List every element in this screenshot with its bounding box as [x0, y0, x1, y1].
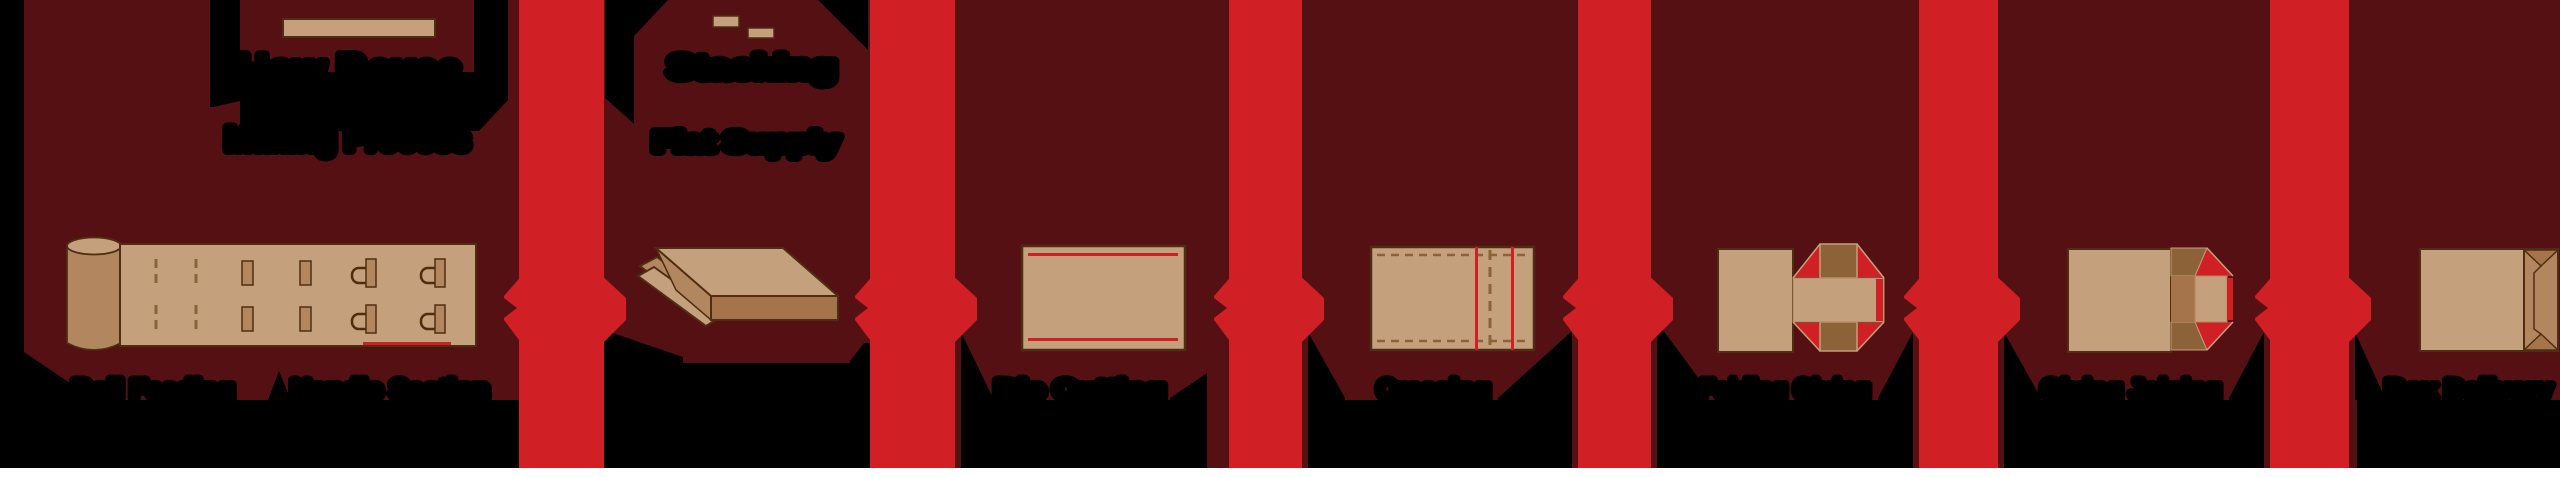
- score dashed line r0 c0: [155, 259, 158, 287]
- score dashed line r1 c0: [155, 305, 158, 333]
- black notch between step1 captions: [268, 371, 291, 400]
- stack sheet edge 1: [640, 257, 727, 320]
- gluing box red side strip: [2227, 278, 2233, 320]
- handle cut r0 c0: [352, 259, 376, 287]
- gluing box red top: [2195, 248, 2233, 276]
- paper roll top ellipse: [67, 238, 121, 255]
- folding box bottom flap: [1820, 322, 1857, 351]
- red divider bar 5: [1919, 0, 1998, 468]
- folding box inner panel: [1793, 278, 1884, 322]
- black wedge left of divider bar 3: [1170, 373, 1207, 400]
- finished box fold top: [2524, 250, 2558, 266]
- stack slab front face: [711, 296, 838, 320]
- gluing box body: [2068, 249, 2171, 352]
- svg-text:Making Process: Making Process: [225, 121, 470, 157]
- black wedge right of divider bar 3: [1308, 332, 1345, 400]
- maroon flank right of bar 3: [1302, 400, 1308, 468]
- svg-text:Handle Section: Handle Section: [291, 374, 489, 404]
- red trim line on sheet: [363, 342, 451, 345]
- white bottom strip: [0, 468, 2560, 477]
- score dashed line r1 c1: [195, 305, 198, 333]
- black wedge right of stack zone: [850, 343, 870, 400]
- svg-text:Gluing Joining: Gluing Joining: [2041, 374, 2221, 404]
- maroon flank left of bar 6: [2264, 400, 2270, 468]
- red arrow bulge on bar 5: [1904, 272, 2020, 348]
- red arrow bulge on bar 1: [504, 272, 626, 348]
- subtitle mini sheet 2: [748, 28, 774, 38]
- red arrow bulge on bar 3: [1214, 272, 1324, 348]
- maroon flank right of bar 6: [2349, 400, 2357, 468]
- arrow notch on bar 2: [855, 298, 868, 318]
- black wedge left of divider bar 4: [1498, 331, 1572, 400]
- black wedge right of divider bar 6: [2355, 332, 2385, 400]
- arrow notch on bar 4: [1563, 298, 1576, 318]
- folding box red bottom-right: [1857, 323, 1883, 351]
- black wedge left of stack zone: [604, 330, 683, 400]
- maroon flank left of bar 4: [1572, 400, 1578, 468]
- crease dashes bottom: [1377, 340, 1528, 343]
- gluing box top flap: [2171, 248, 2207, 276]
- gluing box side wall: [2171, 276, 2195, 322]
- red divider bar 1: [519, 0, 604, 468]
- folding box red top-left: [1794, 245, 1820, 277]
- paper roll body: [67, 246, 121, 350]
- black wedge bottom-left corner: [24, 352, 95, 400]
- black gap left of title block: [210, 0, 240, 107]
- red crease line 2: [1511, 247, 1514, 350]
- svg-text:Die Cutting: Die Cutting: [995, 374, 1165, 404]
- folding box bevel outline: [1793, 244, 1884, 351]
- handle cut r1 c1: [421, 305, 445, 333]
- red divider bar 4: [1578, 0, 1651, 468]
- svg-text:Roll Feeding: Roll Feeding: [72, 374, 234, 404]
- black band under title banner halo: [240, 0, 508, 131]
- black wedge right of divider bar 5: [2004, 332, 2041, 400]
- red arrow bulge on bar 4: [1563, 272, 1673, 348]
- black wedge left of divider bar 5: [1878, 332, 1913, 400]
- finished box side panel: [2524, 249, 2558, 351]
- die-cut slot r0 c0: [242, 261, 253, 285]
- maroon flank right of bar 5: [1998, 400, 2004, 468]
- gluing box red bottom: [2195, 322, 2233, 350]
- subtitle mini sheet 1: [713, 16, 739, 27]
- black wedge right of divider bar 4: [1657, 322, 1700, 400]
- red arrow bulge on bar 6: [2255, 272, 2371, 348]
- crease dashed vertical: [1489, 250, 1492, 347]
- maroon flank left of bar 5: [1913, 400, 1919, 468]
- svg-text:Box Delivery: Box Delivery: [2385, 374, 2553, 404]
- stack sheet edge 2: [638, 267, 722, 326]
- corrugated sheet: [120, 244, 476, 346]
- red arrow bulge on bar 2: [855, 272, 977, 348]
- die-cut slot r0 c1: [300, 261, 311, 285]
- red print line top: [1028, 253, 1178, 256]
- finished box body: [2420, 249, 2524, 351]
- creased blank sheet: [1371, 247, 1534, 350]
- red divider bar 6: [2270, 0, 2349, 468]
- black gap right of subtitle halo: [818, 0, 868, 50]
- red divider bar 3: [1229, 0, 1302, 468]
- red print line bottom: [1028, 338, 1178, 341]
- black gap right of divider bar 1: [605, 0, 668, 124]
- gluing box bottom flap: [2171, 322, 2207, 350]
- maroon flank right of bar 4: [1651, 400, 1657, 468]
- finished box fold bottom: [2524, 334, 2558, 350]
- finished box fold creases: [2534, 266, 2541, 334]
- title banner bar: [283, 19, 435, 37]
- folding box red top-right: [1857, 245, 1883, 277]
- red crease line 1: [1475, 247, 1478, 350]
- arrow notch on bar 5: [1904, 298, 1917, 318]
- gluing box inner panel: [2195, 276, 2227, 322]
- folding box top flap: [1820, 244, 1857, 278]
- svg-text:Stacking: Stacking: [668, 49, 836, 85]
- black wedge right of divider bar 2: [961, 332, 993, 400]
- svg-text:Creasing: Creasing: [1377, 374, 1490, 404]
- gluing box bevel outline: [2207, 248, 2233, 350]
- flat blank sheet: [1022, 246, 1185, 350]
- stack slab left face: [656, 248, 711, 320]
- folding box red side strip: [1876, 279, 1883, 321]
- folding box body: [1718, 249, 1793, 352]
- stack slab top face: [656, 248, 838, 296]
- arrow notch on bar 6: [2255, 298, 2268, 318]
- handle cut r1 c0: [352, 305, 376, 333]
- handle cut r0 c1: [421, 259, 445, 287]
- black band under stack illustration: [683, 363, 850, 400]
- folding box red bottom-left: [1794, 323, 1820, 351]
- arrow notch on bar 1: [504, 298, 517, 318]
- red divider bar 2: [870, 0, 955, 468]
- svg-text:Folding Gluing: Folding Gluing: [1700, 374, 1870, 404]
- maroon flank right of bar 2: [955, 332, 961, 468]
- arrow notch on bar 3: [1214, 298, 1227, 318]
- die-cut slot r1 c1: [300, 307, 311, 331]
- crease dashes top: [1377, 254, 1528, 257]
- svg-text:Flat Supply: Flat Supply: [653, 126, 840, 157]
- svg-text:How Boxes: How Boxes: [238, 46, 461, 93]
- score dashed line r0 c1: [195, 259, 198, 287]
- die-cut slot r1 c0: [242, 307, 253, 331]
- maroon flank left of bar 3: [1207, 373, 1229, 468]
- black wedge left of divider bar 6: [2229, 332, 2264, 400]
